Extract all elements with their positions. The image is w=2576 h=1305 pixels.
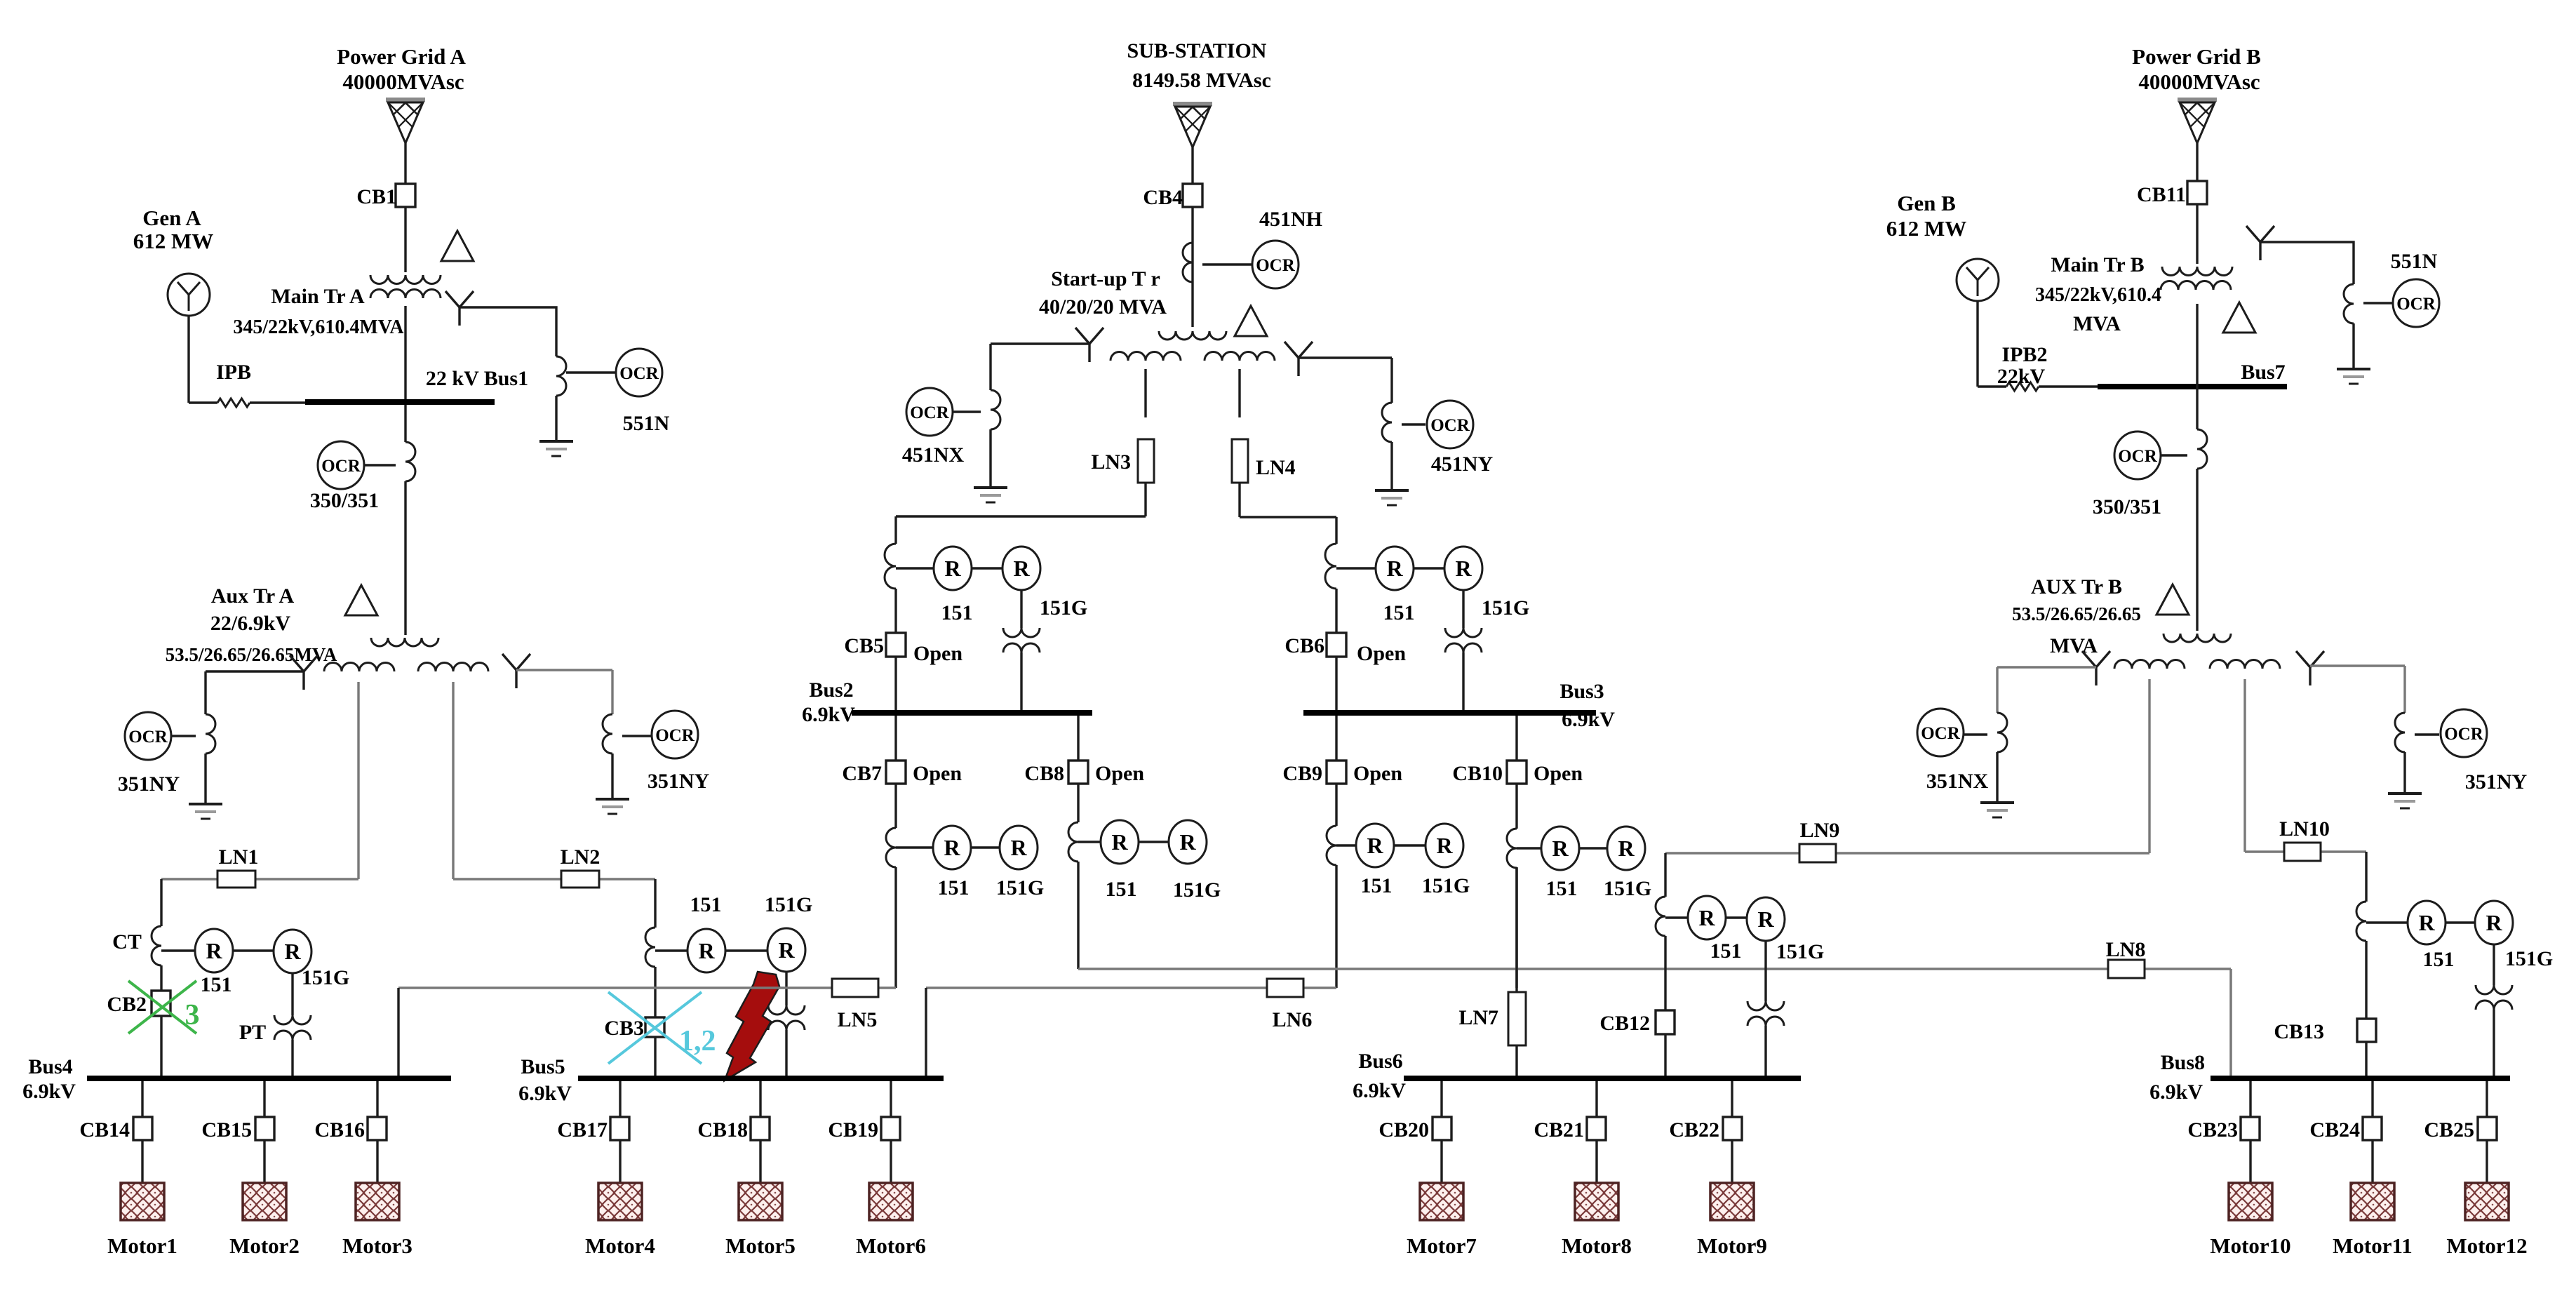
- relay R 151G (CB7): [1000, 826, 1038, 869]
- wire Bus to CB16: [376, 1081, 378, 1117]
- svg-text:Motor11: Motor11: [2333, 1233, 2413, 1258]
- svg-text:CB17: CB17: [557, 1118, 608, 1142]
- svg-text:R: R: [1618, 836, 1635, 861]
- svg-text:LN9: LN9: [1800, 819, 1840, 842]
- svg-text:151G: 151G: [1173, 878, 1221, 902]
- svg-text:Motor3: Motor3: [342, 1233, 412, 1258]
- svg-text:Motor8: Motor8: [1562, 1233, 1632, 1258]
- svg-text:350/351: 350/351: [310, 489, 379, 512]
- svg-text:LN10: LN10: [2279, 817, 2330, 841]
- bus Bus1 22kV: [305, 399, 495, 405]
- wire CB4 to Start-up Tr: [1191, 208, 1193, 327]
- svg-text:8149.58 MVAsc: 8149.58 MVAsc: [1132, 69, 1271, 92]
- svg-text:351NY: 351NY: [118, 772, 180, 796]
- svg-text:Motor4: Motor4: [585, 1233, 655, 1258]
- wire CT to OCR 551N A: [566, 371, 616, 373]
- transformer Main Tr A: [370, 275, 441, 284]
- line reactor LN1: [217, 871, 255, 888]
- transformer Start-up Tr three-winding: [1159, 331, 1226, 340]
- svg-text:6.9kV: 6.9kV: [518, 1082, 572, 1105]
- breaker CB1: [396, 184, 415, 207]
- svg-text:Open: Open: [1095, 762, 1144, 785]
- relay R 151 (CB8): [1101, 820, 1139, 864]
- svg-text:22 kV Bus1: 22 kV Bus1: [426, 367, 528, 390]
- wire CB8 down to LN8 line: [1077, 862, 1079, 969]
- wire 151G relay to PT winding: [291, 973, 293, 1015]
- svg-text:151G: 151G: [2505, 947, 2553, 970]
- wire AUX B left wye to 351NX chain: [1997, 666, 2096, 668]
- delta winding symbol Main Tr A: [441, 231, 474, 261]
- svg-text:Aux Tr A: Aux Tr A: [211, 584, 295, 608]
- wire CB6 to Bus3: [1335, 657, 1337, 710]
- wire Bus to CB14: [141, 1081, 143, 1117]
- breaker CB4: [1183, 184, 1202, 207]
- breaker CB15: [255, 1117, 274, 1140]
- svg-text:R: R: [1552, 836, 1569, 861]
- svg-text:CB9: CB9: [1282, 762, 1322, 785]
- svg-text:PT: PT: [239, 1021, 266, 1044]
- svg-text:Motor1: Motor1: [107, 1233, 177, 1258]
- wire CT to OCR 351NX: [1964, 733, 1987, 735]
- relay R 151G (CB3): [767, 928, 805, 972]
- ground 451NX: [974, 486, 1007, 489]
- motor Motor12: [2465, 1183, 2509, 1220]
- wire relay link (CB8): [1139, 841, 1169, 843]
- wire CB7 to CT: [894, 784, 897, 828]
- wire LN8 line CB8 to Bus8: [1078, 968, 2231, 970]
- wire relay link (CB5): [972, 567, 1002, 569]
- wire CB8 to CT: [1077, 784, 1079, 822]
- wire left wye to 451NX chain: [991, 342, 1089, 344]
- svg-text:451NH: 451NH: [1259, 208, 1322, 231]
- wire Bus to CB21: [1595, 1081, 1597, 1117]
- ground 451NY startup: [1375, 489, 1409, 492]
- wire CT to ground 351NY right: [611, 754, 613, 799]
- wire relay link (CB3): [725, 949, 767, 951]
- breaker CB16: [368, 1117, 387, 1140]
- CT for 350/351 B: [2197, 429, 2207, 469]
- svg-text:LN7: LN7: [1458, 1006, 1498, 1029]
- svg-text:CB15: CB15: [201, 1118, 252, 1142]
- svg-text:OCR: OCR: [1256, 256, 1296, 275]
- wire corner down to CB6: [1335, 517, 1337, 544]
- svg-text:R: R: [1757, 906, 1774, 932]
- breaker CB3: [645, 1017, 664, 1037]
- wire CB22 to Motor9: [1731, 1140, 1733, 1183]
- wire CB10 through LN7 to Bus6: [1515, 867, 1517, 1076]
- svg-text:Gen B: Gen B: [1897, 191, 1956, 215]
- wire LN6 line Bus5 to CB9: [926, 986, 1336, 989]
- wire AUX B right winding to LN10: [2243, 679, 2246, 852]
- delta symbol Aux Tr A: [345, 585, 377, 615]
- svg-text:AUX Tr B: AUX Tr B: [2031, 575, 2122, 598]
- svg-text:Main Tr A: Main Tr A: [271, 285, 365, 308]
- CT on CB9 feeder: [1327, 826, 1336, 865]
- svg-text:Bus7: Bus7: [2241, 361, 2285, 384]
- bus Bus8: [2211, 1076, 2510, 1081]
- svg-text:Start-up T r: Start-up T r: [1051, 267, 1160, 290]
- motor Motor7: [1420, 1183, 1463, 1220]
- wire CT to CB6: [1335, 589, 1337, 633]
- svg-text:R: R: [1179, 829, 1196, 855]
- delta symbol Main Tr B: [2223, 302, 2255, 333]
- CT for 351NY B: [2395, 713, 2405, 752]
- svg-text:R: R: [1013, 556, 1030, 581]
- breaker CB21: [1587, 1117, 1606, 1140]
- svg-text:Motor9: Motor9: [1697, 1233, 1767, 1258]
- relay OCR 451NX: [906, 388, 953, 436]
- breaker CB17: [610, 1117, 629, 1140]
- breaker CB19: [881, 1117, 900, 1140]
- breaker CB25: [2478, 1117, 2497, 1140]
- svg-text:MVA: MVA: [2073, 312, 2121, 335]
- wire right wye to 451NY chain: [1299, 356, 1392, 359]
- grounding winding above Bus2: [1003, 628, 1040, 637]
- wire relay link (CB9): [1394, 844, 1425, 846]
- CT for 351NX B: [1997, 713, 2007, 752]
- wire CB23 to Motor10: [2249, 1140, 2251, 1183]
- wire CT to OCR 451NY: [1402, 423, 1425, 425]
- breaker CB18: [751, 1117, 770, 1140]
- breaker CB24: [2363, 1117, 2382, 1140]
- svg-text:Motor12: Motor12: [2446, 1233, 2527, 1258]
- wire CT to relay 151 (CB9): [1336, 844, 1356, 846]
- motor Motor5: [739, 1183, 782, 1220]
- svg-text:CB14: CB14: [79, 1118, 130, 1142]
- relay R 151G (CB5): [1002, 547, 1040, 590]
- wire Bus to CB23: [2249, 1081, 2251, 1117]
- wire 151G to grounding winding (CB12): [1764, 941, 1766, 1001]
- svg-text:CB23: CB23: [2187, 1118, 2238, 1142]
- breaker CB14: [133, 1117, 152, 1140]
- wire relay link (CB6): [1414, 567, 1444, 569]
- generator Gen B: [1957, 259, 1999, 301]
- wire Bus to CB20: [1440, 1081, 1442, 1117]
- svg-text:53.5/26.65/26.65: 53.5/26.65/26.65: [2012, 603, 2141, 624]
- svg-text:6.9kV: 6.9kV: [1562, 708, 1615, 731]
- wire CB18 to Motor5: [759, 1140, 761, 1183]
- wye symbol Start-up Tr right: [1284, 342, 1299, 358]
- svg-text:Power Grid B: Power Grid B: [2132, 44, 2261, 69]
- svg-text:OCR: OCR: [1921, 724, 1961, 743]
- CT on CB3 feeder: [645, 928, 655, 967]
- svg-text:R: R: [698, 938, 715, 963]
- wye symbol Aux Tr A right: [502, 654, 516, 670]
- line reactor LN7: [1508, 992, 1526, 1045]
- relay R 151G (CB6): [1444, 547, 1482, 590]
- svg-text:CB8: CB8: [1024, 762, 1064, 785]
- wire CB24 to Motor11: [2371, 1140, 2373, 1183]
- svg-text:CB12: CB12: [1599, 1012, 1650, 1035]
- relay R 151G (CB13): [2475, 901, 2513, 944]
- wire CT to relay 151 (CB12): [1665, 916, 1688, 918]
- CT for 551N A: [556, 356, 566, 396]
- svg-text:OCR: OCR: [619, 364, 659, 383]
- CT on CB6 feeder: [1325, 544, 1336, 589]
- wire Bus to CB24: [2371, 1081, 2373, 1117]
- line reactor LN6: [1267, 979, 1303, 997]
- wire Main Tr A wye to 551N CT: [459, 307, 556, 356]
- svg-text:551N: 551N: [2391, 250, 2438, 273]
- wire Bus to CB7: [894, 716, 897, 760]
- ground 551N B: [2337, 368, 2370, 370]
- line reactor LN9: [1799, 844, 1836, 862]
- svg-text:CB20: CB20: [1378, 1118, 1429, 1142]
- relay OCR 350/351 A: [318, 441, 364, 489]
- CT for 350/351 A: [405, 442, 415, 481]
- svg-text:Bus3: Bus3: [1559, 680, 1604, 703]
- bus Bus5: [578, 1076, 944, 1081]
- relay OCR 551N B: [2393, 279, 2439, 327]
- wire Main Tr B wye to 551N B CT: [2260, 242, 2354, 284]
- svg-text:LN4: LN4: [1256, 456, 1296, 479]
- wire Bus7 to AUX Tr B: [2196, 469, 2198, 631]
- line reactor LN2: [561, 871, 599, 888]
- svg-text:Open: Open: [1357, 642, 1406, 665]
- svg-text:Bus8: Bus8: [2161, 1051, 2205, 1074]
- CT for 451NY startup: [1382, 403, 1392, 442]
- svg-text:LN8: LN8: [2106, 938, 2146, 961]
- wye symbol AUX Tr B right: [2296, 651, 2310, 667]
- wire CT down (CB7): [894, 867, 897, 988]
- wire CT down to CB13 breaker: [2365, 941, 2367, 1019]
- svg-text:151: 151: [1546, 877, 1578, 900]
- motor Motor8: [1575, 1183, 1618, 1220]
- PT winding: [274, 1015, 311, 1024]
- svg-text:OCR: OCR: [655, 726, 695, 745]
- wire CB14 to Motor1: [141, 1140, 143, 1183]
- wire Bus to CB25: [2486, 1081, 2488, 1117]
- svg-text:Bus6: Bus6: [1358, 1050, 1402, 1073]
- IPB resistor link: [189, 401, 217, 403]
- svg-text:Motor2: Motor2: [229, 1233, 300, 1258]
- wire CT to relay 151 (CB7): [896, 846, 933, 848]
- svg-text:40000MVAsc: 40000MVAsc: [342, 69, 464, 94]
- transformer AUX Tr B three-winding: [2164, 634, 2231, 642]
- grounding winding (CB13): [2476, 985, 2512, 994]
- relay R 151 (CB7): [933, 826, 971, 869]
- svg-text:CB22: CB22: [1669, 1118, 1719, 1142]
- fault lightning bolt at Bus5: [725, 972, 779, 1080]
- wire CB1 to Main Tr A: [404, 208, 406, 272]
- wire Start-up right winding to LN4: [1238, 369, 1240, 417]
- svg-text:6.9kV: 6.9kV: [22, 1080, 76, 1103]
- wire LN10 down to CB13 CT: [2365, 852, 2367, 902]
- wire 151G to grounding winding (CB6): [1462, 590, 1464, 628]
- wire LN2 to CB3: [654, 879, 656, 928]
- relay R 151G (CB9): [1425, 824, 1463, 867]
- svg-text:R: R: [1698, 905, 1715, 930]
- svg-text:LN3: LN3: [1091, 450, 1131, 474]
- breaker CB23: [2241, 1117, 2260, 1140]
- wire Bus to CB18: [759, 1081, 761, 1117]
- svg-text:CB4: CB4: [1143, 186, 1183, 209]
- grounding winding (CB3): [768, 1005, 805, 1015]
- svg-text:R: R: [2486, 910, 2502, 935]
- svg-text:R: R: [1010, 835, 1027, 860]
- wire LN4 to CB6 corner: [1238, 483, 1240, 517]
- relay R 151 (CB13): [2408, 901, 2446, 944]
- svg-text:CB25: CB25: [2424, 1118, 2474, 1142]
- svg-text:451NY: 451NY: [1431, 453, 1494, 476]
- wire Bus to CB15: [263, 1081, 265, 1117]
- breaker CB22: [1723, 1117, 1742, 1140]
- wire 151G to grounding winding (CB5): [1020, 590, 1022, 628]
- wire CT to relay 151 (CB5): [896, 567, 934, 569]
- relay R 151 (CB5): [934, 547, 972, 590]
- wire CB19 to Motor6: [890, 1140, 892, 1183]
- svg-text:345/22kV,610.4MVA: 345/22kV,610.4MVA: [233, 316, 404, 338]
- line reactor LN10: [2284, 843, 2321, 861]
- CT for 351NY left A: [206, 714, 215, 754]
- svg-text:CB24: CB24: [2309, 1118, 2360, 1142]
- svg-text:Bus2: Bus2: [809, 678, 853, 702]
- wire CT to ground 351NX: [1996, 752, 1998, 803]
- svg-text:Main Tr B: Main Tr B: [2051, 253, 2144, 276]
- wire CT to OCR 451NX: [953, 410, 981, 413]
- svg-text:R: R: [1436, 833, 1453, 858]
- wye symbol Main Tr B: [2246, 226, 2260, 242]
- relay OCR 451NH: [1252, 241, 1299, 288]
- svg-text:6.9kV: 6.9kV: [802, 703, 855, 726]
- outage mark X on CB2 (green): [128, 981, 196, 1033]
- delta symbol AUX Tr B: [2156, 584, 2189, 615]
- wire CT to OCR 451NH: [1202, 263, 1252, 265]
- relay R 151G (CB8): [1169, 820, 1207, 864]
- ground 351NY right A: [596, 798, 629, 801]
- svg-text:Bus4: Bus4: [28, 1055, 72, 1078]
- svg-text:6.9kV: 6.9kV: [2149, 1080, 2203, 1104]
- breaker CB20: [1433, 1117, 1451, 1140]
- grounding winding (CB12): [1747, 1001, 1784, 1010]
- svg-text:1,2: 1,2: [679, 1025, 716, 1057]
- wye symbol Aux Tr A left: [290, 655, 304, 671]
- svg-text:MVA: MVA: [2050, 634, 2098, 657]
- breaker CB12: [1656, 1010, 1675, 1034]
- grounding winding above Bus3: [1445, 628, 1482, 637]
- svg-text:151: 151: [1361, 874, 1393, 897]
- wire Aux A right winding to LN2: [452, 682, 454, 879]
- wire AUX B right wye to 351NY chain: [2310, 664, 2405, 667]
- svg-text:151: 151: [1383, 601, 1415, 624]
- wye winding symbol Main Tr A: [445, 291, 459, 307]
- CT on CB12 feeder: [1656, 897, 1665, 936]
- breaker CB5: [886, 633, 906, 657]
- wire Main Tr B to Bus7: [2196, 304, 2198, 429]
- relay OCR 551N A: [616, 349, 662, 396]
- relay R 151 (CB2): [195, 929, 233, 972]
- wire CT to ground 351NY left: [204, 754, 206, 804]
- svg-text:Open: Open: [913, 762, 962, 785]
- wire LN9 line CB12 to AUX Tr B: [1665, 852, 2149, 855]
- wire CT down to CB12 breaker: [1664, 936, 1666, 1010]
- outage mark X on CB3 (cyan): [608, 992, 702, 1064]
- svg-text:345/22kV,610.4: 345/22kV,610.4: [2035, 284, 2161, 306]
- wire AUX B left winding to LN9: [2148, 679, 2150, 853]
- bus Bus6: [1404, 1076, 1801, 1081]
- svg-text:22kV: 22kV: [1997, 365, 2046, 388]
- svg-text:IPB: IPB: [216, 361, 251, 384]
- svg-text:Power Grid A: Power Grid A: [337, 44, 466, 69]
- svg-text:CB18: CB18: [697, 1118, 748, 1142]
- svg-text:R: R: [2418, 910, 2435, 935]
- motor Motor10: [2229, 1183, 2272, 1220]
- CT on CB8 feeder: [1068, 822, 1078, 862]
- svg-text:22/6.9kV: 22/6.9kV: [210, 612, 291, 635]
- wire Bus to CB17: [619, 1081, 621, 1117]
- wire Bus1 to Aux Tr A: [404, 481, 406, 635]
- wire CT to relay 151 (CB10): [1517, 847, 1541, 849]
- wire corner down to CB5: [894, 516, 897, 544]
- CT on CB2 feeder: [152, 926, 161, 965]
- wire 151G to grounding winding (CB13): [2493, 944, 2495, 985]
- wire relay link (CB13): [2446, 921, 2475, 923]
- CT on CB7 feeder: [886, 828, 896, 867]
- svg-text:R: R: [284, 939, 301, 964]
- wire Main Tr A to Bus1: [404, 306, 406, 442]
- wire CB16 to Motor3: [376, 1140, 378, 1183]
- wire Bus to CB19: [890, 1081, 892, 1117]
- CT for 351NY right A: [603, 714, 612, 754]
- svg-text:151: 151: [941, 601, 973, 624]
- svg-text:R: R: [1455, 556, 1472, 581]
- svg-text:612 MW: 612 MW: [133, 229, 214, 253]
- svg-text:151: 151: [938, 876, 970, 899]
- wire Bus2 to CB8: [1077, 716, 1079, 760]
- wire Aux A left winding to LN1: [357, 682, 359, 879]
- wire LN10 line AUX Tr B to CB13: [2245, 850, 2366, 853]
- breaker CB13: [2357, 1019, 2376, 1042]
- svg-text:151G: 151G: [1776, 940, 1824, 963]
- wire Gen A down: [187, 316, 189, 403]
- svg-text:LN1: LN1: [219, 845, 259, 869]
- bus Bus2: [852, 710, 1092, 716]
- line reactor LN5: [832, 979, 878, 997]
- breaker CB2: [152, 991, 170, 1016]
- svg-text:Open: Open: [1534, 762, 1583, 785]
- svg-text:OCR: OCR: [2396, 295, 2436, 314]
- line reactor LN4: [1232, 439, 1248, 483]
- svg-text:CB6: CB6: [1284, 634, 1324, 657]
- wire CT to relay 151 (CB2): [161, 949, 195, 951]
- wire CT to ground 451NY: [1390, 442, 1393, 490]
- wire Bus to CB10: [1515, 716, 1517, 760]
- motor Motor4: [598, 1183, 642, 1220]
- svg-text:Open: Open: [1353, 762, 1402, 785]
- svg-text:CB16: CB16: [314, 1118, 365, 1142]
- wire LN5 line Bus4 to CB7: [398, 986, 896, 989]
- wire substation to CB4: [1191, 147, 1193, 185]
- wire LN3 to CB5 corner: [1144, 483, 1146, 516]
- svg-text:OCR: OCR: [910, 403, 950, 422]
- relay R 151G (CB10): [1607, 826, 1645, 870]
- ground 351NY B: [2388, 792, 2422, 795]
- svg-text:Motor5: Motor5: [725, 1233, 796, 1258]
- svg-text:6.9kV: 6.9kV: [1353, 1079, 1406, 1102]
- relay OCR 351NX B: [1917, 709, 1964, 756]
- wire CT down (CB9): [1335, 865, 1337, 988]
- svg-text:LN5: LN5: [838, 1008, 878, 1031]
- svg-text:CB2: CB2: [107, 993, 147, 1016]
- svg-text:OCR: OCR: [2118, 447, 2158, 466]
- wire grid B to CB11: [2196, 143, 2198, 181]
- motor Motor11: [2351, 1183, 2394, 1220]
- wire relay link (CB12): [1726, 916, 1747, 918]
- CT for 451NH: [1183, 243, 1193, 282]
- svg-text:CB21: CB21: [1534, 1118, 1584, 1142]
- wire CB20 to Motor7: [1440, 1140, 1442, 1183]
- delta symbol Start-up Tr: [1235, 306, 1267, 336]
